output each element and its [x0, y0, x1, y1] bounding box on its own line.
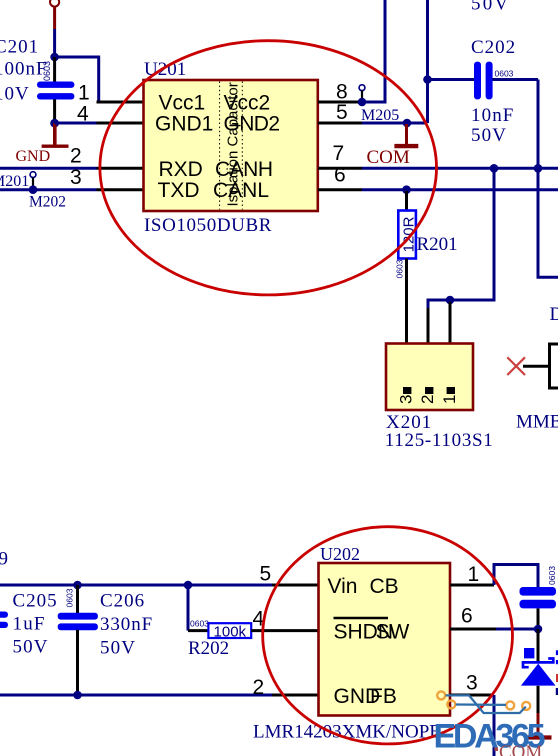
node junction row7 x538 [534, 164, 543, 173]
svg-text:2: 2 [70, 145, 82, 168]
svg-text:0603: 0603 [495, 68, 514, 78]
svg-text:GND: GND [16, 148, 51, 165]
wire D201 [523, 365, 550, 368]
wire vertical x538 [538, 80, 558, 278]
svg-text:0603: 0603 [190, 619, 209, 629]
svg-text:120R: 120R [401, 216, 418, 252]
svg-text:6: 6 [334, 164, 346, 187]
svg-text:M201: M201 [0, 173, 29, 190]
node junction M202 [29, 185, 38, 194]
node junction R201 top [402, 185, 411, 194]
node junction X201 pin1 [446, 296, 455, 305]
wire pin1 to C203 [494, 565, 538, 589]
svg-text:GND1: GND1 [155, 113, 213, 136]
regulator U202 body [319, 563, 451, 716]
diode D202 [521, 629, 556, 713]
node junction R202 top [184, 581, 193, 590]
svg-text:COM: COM [367, 147, 410, 168]
svg-text:3: 3 [396, 395, 415, 404]
svg-text:R202: R202 [188, 638, 229, 659]
wire Vin top row [0, 584, 272, 587]
svg-text:6: 6 [461, 605, 473, 628]
wire CANH row7 [362, 167, 558, 170]
node junction C201 top [50, 53, 59, 62]
pin name SHDN with overline [334, 618, 394, 643]
svg-text:50V: 50V [100, 638, 136, 659]
pin 5 U201 [318, 122, 362, 125]
svg-text:2: 2 [253, 676, 265, 699]
svg-text:CANH: CANH [215, 158, 273, 181]
wire x494 down to X201 [428, 168, 494, 309]
svg-text:FB: FB [370, 685, 397, 708]
svg-text:RXD: RXD [159, 158, 203, 181]
svg-text:10V: 10V [0, 84, 30, 105]
svg-text:GND2: GND2 [224, 113, 280, 136]
watermark pad ring 3 [506, 701, 514, 709]
isolation barrier dotted line right [241, 82, 243, 210]
svg-text:SW: SW [376, 620, 410, 643]
svg-text:0603: 0603 [65, 588, 75, 607]
fragment blue hook right edge b [556, 660, 558, 664]
svg-text:50V: 50V [13, 636, 49, 657]
pin 2 U201 [97, 167, 144, 170]
fragment blue right edge [556, 688, 558, 695]
ground COM symbol [394, 124, 418, 146]
ground COM diode [526, 713, 552, 738]
pin 5 U202 [272, 584, 319, 587]
wire pin8 up [362, 0, 385, 102]
svg-text:CB: CB [370, 575, 399, 598]
svg-text:R201: R201 [417, 234, 458, 255]
svg-text:C205: C205 [13, 590, 58, 611]
svg-text:10nF: 10nF [471, 105, 514, 126]
pin 7 U201 [318, 167, 362, 170]
highlight ellipse U201 [100, 41, 437, 295]
svg-text:3: 3 [466, 672, 478, 695]
wire to C202 [428, 78, 475, 81]
fragment red right edge [556, 674, 558, 682]
pin 1 U201 [97, 101, 144, 104]
watermark pad ring 1 [437, 691, 445, 699]
node junction C206 top [73, 581, 82, 590]
highlight ellipse U202 [263, 527, 513, 744]
no-fit red X D201 [507, 357, 525, 375]
test point M201 circle [30, 172, 36, 190]
watermark pad ring 2 [447, 700, 455, 708]
svg-text:5: 5 [260, 563, 272, 586]
node junction row7 x494 [490, 164, 499, 173]
SECTION-TOP [0, 0, 558, 451]
svg-text:0603: 0603 [42, 61, 52, 81]
capacitor C202 [474, 62, 493, 100]
svg-text:2: 2 [418, 395, 437, 404]
svg-text:9: 9 [0, 549, 8, 570]
svg-text:1: 1 [78, 82, 90, 105]
wire R202 branch [187, 585, 190, 631]
svg-text:7: 7 [333, 142, 345, 165]
node junction C202 branch [423, 75, 432, 84]
wire vertical x427 [426, 0, 429, 123]
wire SW to diode [496, 628, 537, 631]
ground GND symbol [42, 123, 69, 146]
svg-text:50V: 50V [471, 125, 507, 146]
pin 1 U202 [450, 584, 494, 587]
svg-text:TXD: TXD [158, 179, 200, 202]
capacitor C203 [520, 587, 557, 629]
wire pin5 to COM [362, 122, 428, 125]
svg-text:Vcc1: Vcc1 [159, 92, 206, 115]
svg-text:U202: U202 [320, 544, 360, 564]
pin 6 U202 [450, 628, 496, 631]
wire FB down [493, 695, 496, 756]
svg-text:MMBZ27V: MMBZ27V [516, 412, 558, 433]
pin square 1 [447, 387, 455, 394]
watermark trace B [456, 703, 506, 706]
SECTION-OVERLAY [100, 41, 545, 756]
svg-text:1: 1 [468, 563, 480, 586]
svg-text:1: 1 [440, 395, 459, 404]
svg-text:1uF: 1uF [13, 613, 46, 634]
svg-text:Vcc2: Vcc2 [224, 92, 271, 115]
fragment blue hook right edge a [556, 650, 558, 655]
resistor R201 [398, 191, 417, 344]
svg-text:M205: M205 [361, 107, 399, 124]
connector X201 body [386, 344, 473, 411]
svg-text:M202: M202 [29, 194, 66, 211]
test point M205 circle [359, 85, 365, 100]
capacitor C206 [58, 585, 98, 695]
node junction pin8 [358, 98, 367, 107]
isolation barrier dotted line left [219, 82, 221, 210]
svg-text:0603: 0603 [395, 259, 405, 278]
node junction COM [403, 119, 412, 128]
wire pin4 from C201 [55, 122, 97, 125]
pin 2 U202 [272, 694, 319, 697]
wire junction to pin1 corner [55, 57, 99, 102]
watermark dot [495, 748, 499, 752]
svg-text:CANL: CANL [213, 179, 269, 202]
pin 4 U201 [97, 122, 144, 125]
svg-text:100nF: 100nF [0, 59, 48, 80]
svg-text:4: 4 [77, 103, 89, 126]
svg-text:C206: C206 [100, 590, 145, 611]
power port P1 top circle [50, 0, 59, 29]
svg-text:330nF: 330nF [100, 614, 153, 635]
svg-text:1125-1103S1: 1125-1103S1 [385, 430, 494, 451]
pin 3 U201 [97, 188, 144, 191]
wire GND bottom row [0, 694, 272, 697]
pin X201-1 stem [449, 302, 452, 344]
wire CANL row6 [362, 188, 558, 191]
wire TXD row3 [0, 188, 97, 191]
pin 8 U201 [318, 101, 362, 104]
svg-text:D201: D201 [550, 304, 558, 325]
SECTION-BOTTOM [0, 544, 558, 756]
wire RXD row2 [0, 167, 97, 170]
capacitor C205 clipped [0, 612, 8, 629]
wire C202 to corner [492, 78, 538, 81]
pin square 2 [425, 387, 433, 394]
diode D201 body clipped [550, 344, 558, 388]
node junction C206 bottom [73, 691, 82, 700]
node junction C201 bottom [50, 119, 59, 128]
svg-text:5: 5 [336, 101, 348, 124]
capacitor C201 [37, 57, 74, 123]
svg-text:3: 3 [70, 166, 82, 189]
watermark pad ring 4 [522, 702, 530, 710]
wire VCC vertical to junction [53, 29, 56, 57]
watermark trace A [446, 695, 526, 713]
resistor R202 [188, 623, 319, 640]
pin X201-2 stem [427, 308, 430, 344]
svg-text:50V: 50V [471, 0, 510, 15]
node junction SW [534, 625, 543, 634]
pin 3 U202 [450, 694, 494, 697]
pin square 3 [403, 387, 411, 394]
svg-text:COM: COM [499, 742, 542, 756]
pin 6 U201 [318, 188, 362, 191]
svg-text:Vin: Vin [328, 575, 358, 598]
svg-text:C202: C202 [471, 37, 516, 58]
svg-text:0603: 0603 [547, 566, 557, 585]
svg-text:ISO1050DUBR: ISO1050DUBR [144, 215, 272, 236]
svg-text:C201: C201 [0, 37, 39, 58]
op-amp U201 body [144, 80, 318, 211]
